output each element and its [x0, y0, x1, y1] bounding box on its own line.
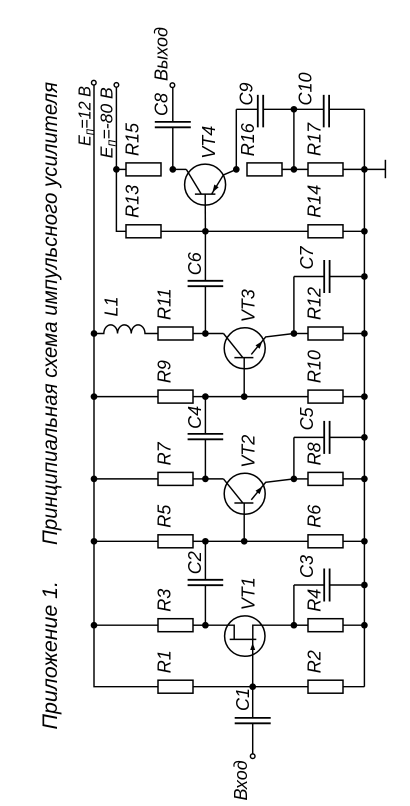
- resistor R5: [158, 535, 193, 548]
- node rail/R12: [361, 330, 368, 337]
- resistor R13: [126, 225, 161, 238]
- node rail/C5: [361, 434, 368, 441]
- resistor R16: [247, 163, 282, 176]
- wire gate node to R2: [253, 686, 308, 688]
- svg-text:C2: C2: [185, 551, 205, 574]
- node rail/R17: [361, 166, 368, 173]
- node VT1 gate: [249, 683, 256, 690]
- svg-text:C1: C1: [233, 688, 253, 711]
- wire C9 branch left: [236, 108, 257, 110]
- inductor L1: [94, 325, 158, 334]
- node rail/R7: [91, 476, 98, 483]
- wire gate to C1: [252, 687, 254, 718]
- capacitor C3: [324, 569, 329, 602]
- wire R3 to drain node: [193, 624, 205, 626]
- capacitor C10: [324, 95, 329, 128]
- svg-text:R17: R17: [305, 122, 325, 156]
- svg-text:VT3: VT3: [239, 289, 259, 322]
- svg-text:R10: R10: [305, 350, 325, 383]
- wire C2 upper: [204, 541, 206, 580]
- wire C3 branch left: [294, 584, 324, 586]
- svg-text:R13: R13: [123, 185, 143, 218]
- svg-text:Выход: Выход: [152, 27, 172, 81]
- wire R8 to rail: [343, 478, 364, 480]
- terminal Ep+12V: [92, 80, 97, 85]
- wire C5 branch left: [294, 436, 324, 438]
- node rail/C3: [361, 582, 368, 589]
- svg-text:VT2: VT2: [239, 435, 259, 468]
- wire C2 lower: [204, 585, 206, 625]
- wire R6 to rail: [343, 540, 364, 542]
- svg-text:R4: R4: [305, 589, 325, 612]
- svg-text:R2: R2: [305, 650, 325, 673]
- node VT2 emitter: [291, 476, 298, 483]
- wire C5 branch right: [330, 436, 365, 438]
- wire VT4 emitter riser: [235, 109, 237, 169]
- resistor R4: [308, 619, 343, 632]
- wire R2 to rail: [343, 686, 364, 688]
- svg-text:C8: C8: [152, 93, 172, 116]
- svg-text:Принципиальная схема импульсно: Принципиальная схема импульсного усилите…: [39, 82, 62, 545]
- node C9/C10 junction: [291, 106, 298, 113]
- svg-text:R11: R11: [155, 288, 175, 320]
- node R16/R17 junction: [291, 166, 298, 173]
- svg-text:VT4: VT4: [199, 126, 219, 159]
- wire R16 to R17: [282, 168, 308, 170]
- wire C4 lower: [204, 439, 206, 479]
- wire C1 to input: [252, 723, 254, 754]
- svg-text:Еп=-80 В: Еп=-80 В: [97, 87, 119, 158]
- wire emitter to R12: [294, 333, 308, 335]
- wire base node to R6: [244, 540, 308, 542]
- node VT2 collector: [202, 476, 209, 483]
- node rail/R9: [91, 393, 98, 400]
- node VT4 collector: [169, 166, 176, 173]
- svg-text:R16: R16: [238, 122, 258, 156]
- wire rail to R7: [94, 478, 158, 480]
- svg-text:R12: R12: [305, 287, 325, 320]
- resistor R12: [308, 327, 343, 340]
- node rail/R10: [361, 393, 368, 400]
- transistor VT2: [205, 473, 294, 541]
- wire C7 riser: [293, 277, 295, 334]
- wire R11 to collector node: [193, 333, 205, 335]
- resistor R8: [308, 472, 343, 485]
- svg-text:C10: C10: [296, 72, 316, 105]
- capacitor C7: [324, 260, 329, 293]
- svg-text:Еп=12 В: Еп=12 В: [74, 86, 96, 146]
- terminal input: [250, 754, 255, 759]
- wire C6 lower: [204, 286, 206, 333]
- wire -80V line: [116, 87, 126, 231]
- svg-text:C6: C6: [185, 251, 205, 275]
- wire rail to R9: [94, 396, 158, 398]
- wire base node to R14: [205, 230, 308, 232]
- wire rail to R3: [94, 624, 158, 626]
- node VT3 emitter: [291, 330, 298, 337]
- node rail/R6: [361, 538, 368, 545]
- node C2 top: [202, 538, 209, 545]
- wire R5 to C2 node: [193, 540, 205, 542]
- wire C5 riser: [293, 437, 295, 479]
- resistor R6: [308, 535, 343, 548]
- svg-text:C4: C4: [185, 406, 205, 429]
- wire C9 branch right: [263, 108, 294, 110]
- wire source to R4: [294, 624, 308, 626]
- svg-text:Вход: Вход: [231, 760, 251, 800]
- node VT3 collector: [202, 330, 209, 337]
- wire -80V to R15: [116, 168, 126, 170]
- resistor R7: [158, 472, 193, 485]
- wire R9 to C4 node: [193, 396, 205, 398]
- wire C7 branch left: [294, 276, 324, 278]
- svg-text:VT1: VT1: [239, 577, 259, 610]
- svg-text:R9: R9: [155, 360, 175, 383]
- wire C8 to collector node: [172, 127, 174, 169]
- svg-text:R8: R8: [305, 442, 325, 465]
- resistor R1: [158, 680, 193, 693]
- node rail/R14: [361, 228, 368, 235]
- wire R7 to collector node: [193, 478, 205, 480]
- svg-text:R3: R3: [155, 589, 175, 612]
- svg-text:C3: C3: [297, 555, 317, 578]
- wire C10 branch right: [329, 108, 364, 110]
- wire C4 node to base node: [205, 396, 244, 398]
- wire R10 to rail: [343, 396, 364, 398]
- node VT1 source: [291, 622, 298, 629]
- transistor VT3: [205, 328, 294, 397]
- node C4 top: [202, 393, 209, 400]
- node rail/R3: [91, 622, 98, 629]
- node rail/R4: [361, 622, 368, 629]
- node rail/R5: [91, 538, 98, 545]
- svg-text:Приложение 1.: Приложение 1.: [39, 581, 62, 730]
- capacitor C8: [155, 122, 191, 127]
- svg-text:R5: R5: [155, 504, 175, 528]
- svg-text:C9: C9: [236, 82, 256, 105]
- wire mid riser: [293, 109, 295, 169]
- svg-text:C7: C7: [297, 246, 317, 270]
- node rail/C7: [361, 273, 368, 280]
- wire C4 upper: [204, 397, 206, 434]
- wire common rail: [363, 109, 365, 686]
- node -80V/R15 junction: [113, 166, 120, 173]
- wire R4 to rail: [343, 624, 364, 626]
- node rail/R8: [361, 476, 368, 483]
- svg-text:R14: R14: [305, 185, 325, 218]
- resistor R10: [308, 390, 343, 403]
- capacitor C4: [188, 434, 224, 439]
- resistor R11: [158, 327, 193, 340]
- wire R14 to rail: [343, 230, 364, 232]
- terminal Ep-80V: [114, 83, 119, 88]
- node VT4 emitter: [233, 166, 240, 173]
- resistor R14: [308, 225, 343, 238]
- svg-text:R15: R15: [123, 122, 143, 156]
- wire base node to R10: [244, 396, 308, 398]
- wire +12V rail: [94, 85, 158, 687]
- wire C10 branch left: [294, 108, 324, 110]
- resistor R17: [308, 163, 343, 176]
- wire C3 riser: [293, 585, 295, 625]
- resistor R2: [308, 680, 343, 693]
- wire R17 to rail: [343, 168, 364, 170]
- resistor R3: [158, 619, 193, 632]
- wire C6 upper: [204, 231, 206, 280]
- resistor R15: [126, 163, 161, 176]
- transistor VT1: [205, 616, 294, 687]
- svg-text:R1: R1: [155, 650, 175, 673]
- capacitor C6: [188, 281, 224, 286]
- ground: [364, 160, 385, 178]
- svg-text:R7: R7: [155, 441, 175, 465]
- wire emitter to R8: [294, 478, 308, 480]
- resistor R9: [158, 390, 193, 403]
- capacitor C9: [258, 95, 263, 128]
- node VT4 base/C6: [202, 228, 209, 235]
- capacitor C2: [188, 580, 224, 585]
- node VT2 base: [241, 538, 248, 545]
- wire C2 node to base node: [205, 540, 244, 542]
- wire R13 to base node: [161, 230, 205, 232]
- capacitor C1: [235, 718, 271, 723]
- capacitor C5: [324, 421, 329, 454]
- node VT3 base: [241, 393, 248, 400]
- svg-text:R6: R6: [305, 504, 325, 528]
- wire C3 branch right: [330, 584, 365, 586]
- wire C7 branch right: [330, 276, 365, 278]
- wire R1 to gate node: [193, 686, 253, 688]
- wire R12 to rail: [343, 333, 364, 335]
- svg-text:C5: C5: [297, 406, 317, 430]
- terminal output: [170, 83, 175, 88]
- wire output to C8: [172, 88, 174, 122]
- transistor VT4: [173, 164, 237, 231]
- node rail/L1: [91, 330, 98, 337]
- node VT1 drain: [202, 622, 209, 629]
- wire rail to R5: [94, 540, 158, 542]
- svg-text:L1: L1: [102, 296, 122, 316]
